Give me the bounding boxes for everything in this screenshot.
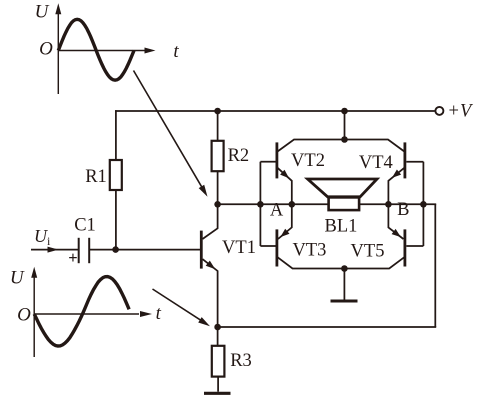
wire +V top rail: [115, 110, 435, 112]
wire R2 to VT1 collector node: [217, 171, 219, 204]
wire R3 to ground: [217, 377, 219, 392]
annotation arrow from input waveform to VT1 base node: [134, 71, 205, 192]
wire emitter node down to R3: [217, 327, 219, 346]
svg-text:C1: C1: [74, 216, 96, 236]
transistor VT5 base lead: [406, 245, 423, 247]
wire VT2/VT3 common base vertical: [259, 162, 261, 246]
svg-text:R2: R2: [228, 146, 250, 166]
svg-text:O: O: [39, 39, 53, 60]
wire bridge bottom node to ground: [343, 269, 345, 300]
junction dot VT1 collector node: [214, 201, 221, 208]
transistor VT2 base bar: [275, 142, 278, 178]
junction dot node A bases: [257, 201, 264, 208]
junction dot bridge top node: [341, 136, 348, 143]
input waveform graph: t axis (horizontal) with arrowhead: [58, 50, 145, 52]
svg-text:U: U: [10, 267, 25, 288]
junction dot node B bases: [420, 201, 427, 208]
wire R1 to input node: [115, 190, 117, 250]
capacitor C1 right plate: [88, 238, 90, 263]
transistor VT3 collector lead to bridge bottom: [278, 257, 345, 268]
transistor VT5 emitter lead with arrow (PNP) from node B: [388, 204, 403, 239]
wire VT4/VT5 common base vertical: [422, 162, 424, 246]
transistor VT4 base bar: [403, 142, 406, 178]
junction dot top rail / R2: [214, 108, 221, 115]
capacitor C1 left plate: [78, 238, 80, 263]
resistor R1: [110, 160, 122, 190]
wire bottom feedback rail: [218, 326, 437, 328]
svg-text:R1: R1: [85, 167, 107, 187]
junction dot top rail / bridge: [341, 108, 348, 115]
annotation arrow from output waveform to emitter node: [153, 289, 207, 324]
input waveform graph: U axis (vertical) with arrowhead: [57, 8, 59, 94]
wire top rail down to R1: [115, 110, 117, 160]
svg-text:B: B: [397, 200, 409, 220]
svg-text:A: A: [270, 200, 284, 220]
wire VT1 collector node to node A and speaker: [218, 203, 329, 205]
wire bridge top to VT4 collector: [345, 140, 405, 152]
input wire with arrowhead into C1: [31, 249, 78, 251]
wire C1 to VT1 base with input node: [89, 249, 200, 251]
svg-text:+V: +V: [449, 102, 474, 122]
transistor VT3 base lead: [260, 245, 275, 247]
ground symbol below bridge: [331, 300, 358, 303]
transistor VT2 base lead: [260, 161, 275, 163]
speaker BL1 body (rectangle): [329, 197, 360, 210]
transistor VT1 collector lead: [203, 204, 218, 239]
transistor VT3 emitter lead with arrow (PNP) from node A: [278, 204, 292, 239]
output waveform graph: t axis (horizontal) with arrowhead: [34, 313, 139, 315]
wire speaker to node B and feedback corner: [359, 203, 436, 205]
transistor VT5 base bar: [403, 229, 406, 266]
terminal circle +V: [435, 107, 443, 115]
wire bottom rail up to node B corner: [434, 204, 436, 327]
transistor VT1 emitter lead with arrow: [203, 259, 218, 327]
output sine waveform (starts negative, phase inverted): [34, 277, 129, 346]
svg-text:O: O: [17, 305, 31, 326]
resistor R3: [212, 346, 225, 377]
svg-text:VT3: VT3: [292, 240, 326, 260]
svg-text:R3: R3: [230, 351, 252, 371]
transistor VT1 base bar: [200, 231, 203, 269]
junction dot bridge bottom node: [341, 265, 348, 272]
input sine waveform (starts positive): [58, 19, 134, 80]
svg-text:U: U: [35, 1, 50, 22]
transistor VT4 emitter lead with arrow (NPN) down to node B: [388, 168, 404, 205]
junction dot node B emitters: [385, 201, 392, 208]
transistor VT4 base lead: [406, 161, 423, 163]
transistor VT3 base bar: [275, 229, 278, 266]
svg-text:VT1: VT1: [222, 238, 256, 258]
junction dot node A emitters: [289, 201, 296, 208]
svg-text:t: t: [173, 41, 179, 62]
junction dot input node (R1 bottom / C1 / VT1 base): [112, 246, 119, 253]
transistor VT2 emitter lead with arrow (NPN) down to node A: [278, 168, 292, 205]
ground symbol below R3: [204, 392, 231, 395]
svg-text:VT2: VT2: [291, 151, 325, 171]
wire top rail down to bridge top node: [344, 111, 346, 140]
svg-text:VT5: VT5: [351, 242, 385, 262]
resistor R2: [212, 141, 224, 171]
wire bridge top to VT2 collector: [278, 140, 345, 152]
speaker BL1 cone (trapezoid): [308, 179, 377, 197]
transistor VT5 collector lead to bridge bottom: [345, 257, 405, 268]
svg-text:BL1: BL1: [325, 216, 358, 236]
svg-text:t: t: [156, 303, 162, 324]
svg-text:+: +: [68, 248, 77, 267]
output waveform graph: U axis (vertical) with arrowhead: [33, 272, 35, 357]
wire top rail down to R2: [217, 111, 219, 141]
junction dot VT1 emitter / R3 node: [214, 324, 221, 331]
svg-text:VT4: VT4: [359, 153, 393, 173]
